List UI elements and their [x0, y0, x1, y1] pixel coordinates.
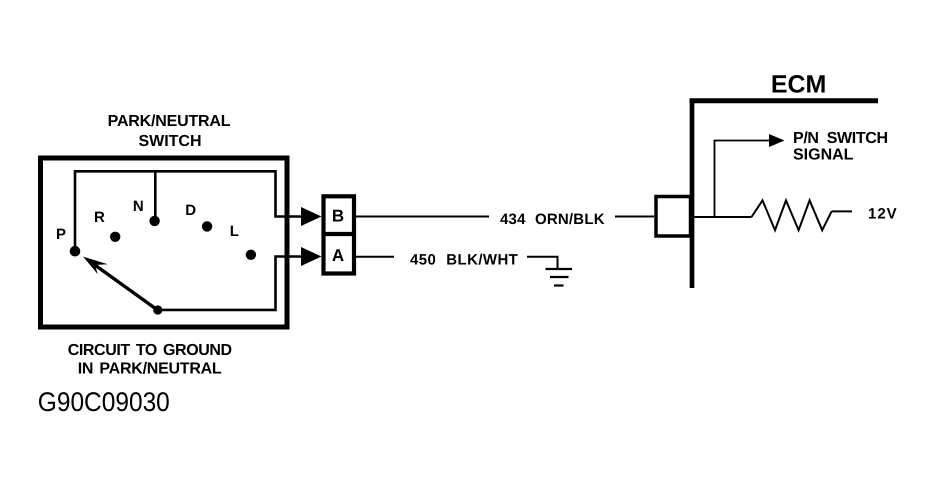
wire branch to P/N switch signal [715, 141, 770, 218]
ECM module boundary left line [690, 99, 695, 288]
switch S1 park/neutral switch box [41, 158, 288, 327]
wire 450 from pin A [356, 256, 394, 258]
label PARK/NEUTRAL SWITCH [108, 113, 231, 150]
wire inside ECM to resistor [694, 216, 752, 218]
connector pins B/A box [324, 196, 355, 273]
svg-text:SIGNAL: SIGNAL [793, 147, 854, 164]
svg-text:ECM: ECM [771, 71, 827, 99]
wire 450 to ground [527, 257, 558, 269]
svg-text:A: A [332, 246, 344, 265]
arrow into pin A [301, 247, 322, 266]
node D contact [202, 221, 212, 231]
label CIRCUIT TO GROUND IN PARK/NEUTRAL [68, 342, 232, 378]
node L contact [246, 250, 256, 260]
node N contact [149, 216, 159, 226]
svg-text:SWITCH: SWITCH [138, 133, 201, 150]
ECM module boundary top line [690, 98, 879, 103]
svg-text:L: L [230, 223, 239, 240]
wire inner top path from P contact to pin B [75, 171, 303, 251]
ground G1 [546, 269, 573, 286]
svg-text:G90C09030: G90C09030 [38, 387, 170, 417]
node wiper pivot [153, 305, 162, 314]
svg-text:PARK/NEUTRAL: PARK/NEUTRAL [108, 113, 231, 130]
wire 434 from pin B [356, 216, 489, 218]
arrow into pin B [301, 207, 322, 226]
wiper selector arm arrow pointing to P [83, 257, 157, 310]
node R contact [110, 232, 120, 242]
label P/N SWITCH SIGNAL [793, 130, 888, 164]
node P contact [70, 246, 81, 257]
svg-text:D: D [185, 202, 196, 219]
wire inner bottom path from wiper pivot to pin A [159, 257, 304, 310]
svg-text:P: P [56, 226, 66, 243]
svg-text:IN PARK/NEUTRAL: IN PARK/NEUTRAL [78, 361, 222, 378]
svg-text:P/N SWITCH: P/N SWITCH [793, 130, 888, 147]
ECM connector C1 box [656, 197, 691, 237]
svg-text:CIRCUIT TO GROUND: CIRCUIT TO GROUND [68, 342, 232, 359]
svg-text:N: N [133, 198, 144, 215]
svg-text:B: B [332, 207, 344, 226]
svg-text:434 ORN/BLK: 434 ORN/BLK [500, 211, 605, 228]
resistor R1 pull-up [752, 200, 832, 230]
arrow P/N switch signal [769, 134, 785, 147]
wire resistor to 12V [832, 210, 852, 212]
svg-text:12V: 12V [868, 206, 898, 223]
svg-text:450 BLK/WHT: 450 BLK/WHT [410, 252, 518, 269]
wire 434 to ECM connector [615, 216, 654, 218]
wire N branch [154, 171, 157, 221]
svg-text:R: R [94, 209, 105, 226]
